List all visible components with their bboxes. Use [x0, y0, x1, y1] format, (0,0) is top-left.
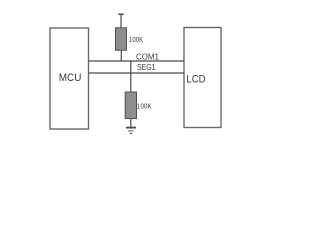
ground: [126, 128, 136, 134]
svg-text:LCD: LCD: [186, 73, 205, 85]
svg-text:100K: 100K: [137, 104, 152, 111]
power supply rail symbol: [118, 13, 123, 15]
wire: COM1 node down to R2 (crosses SEG1): [130, 61, 132, 92]
LCD box: [184, 28, 221, 128]
svg-text:SEG1: SEG1: [137, 62, 156, 72]
svg-text:MCU: MCU: [59, 72, 82, 84]
resistor R1 100K (pull-up): [116, 28, 127, 50]
resistor R2 100K (pull-down): [125, 92, 136, 119]
wire COM1 (MCU to LCD): [89, 60, 185, 62]
wire: R1 to COM1: [120, 50, 122, 61]
svg-text:COM1: COM1: [136, 51, 159, 61]
svg-text:100K: 100K: [129, 37, 143, 44]
wire: R2 to ground: [130, 119, 132, 128]
wire: power to R1: [120, 14, 122, 28]
MCU U1 box: [50, 28, 89, 129]
wire SEG1 (MCU to LCD): [89, 72, 185, 74]
